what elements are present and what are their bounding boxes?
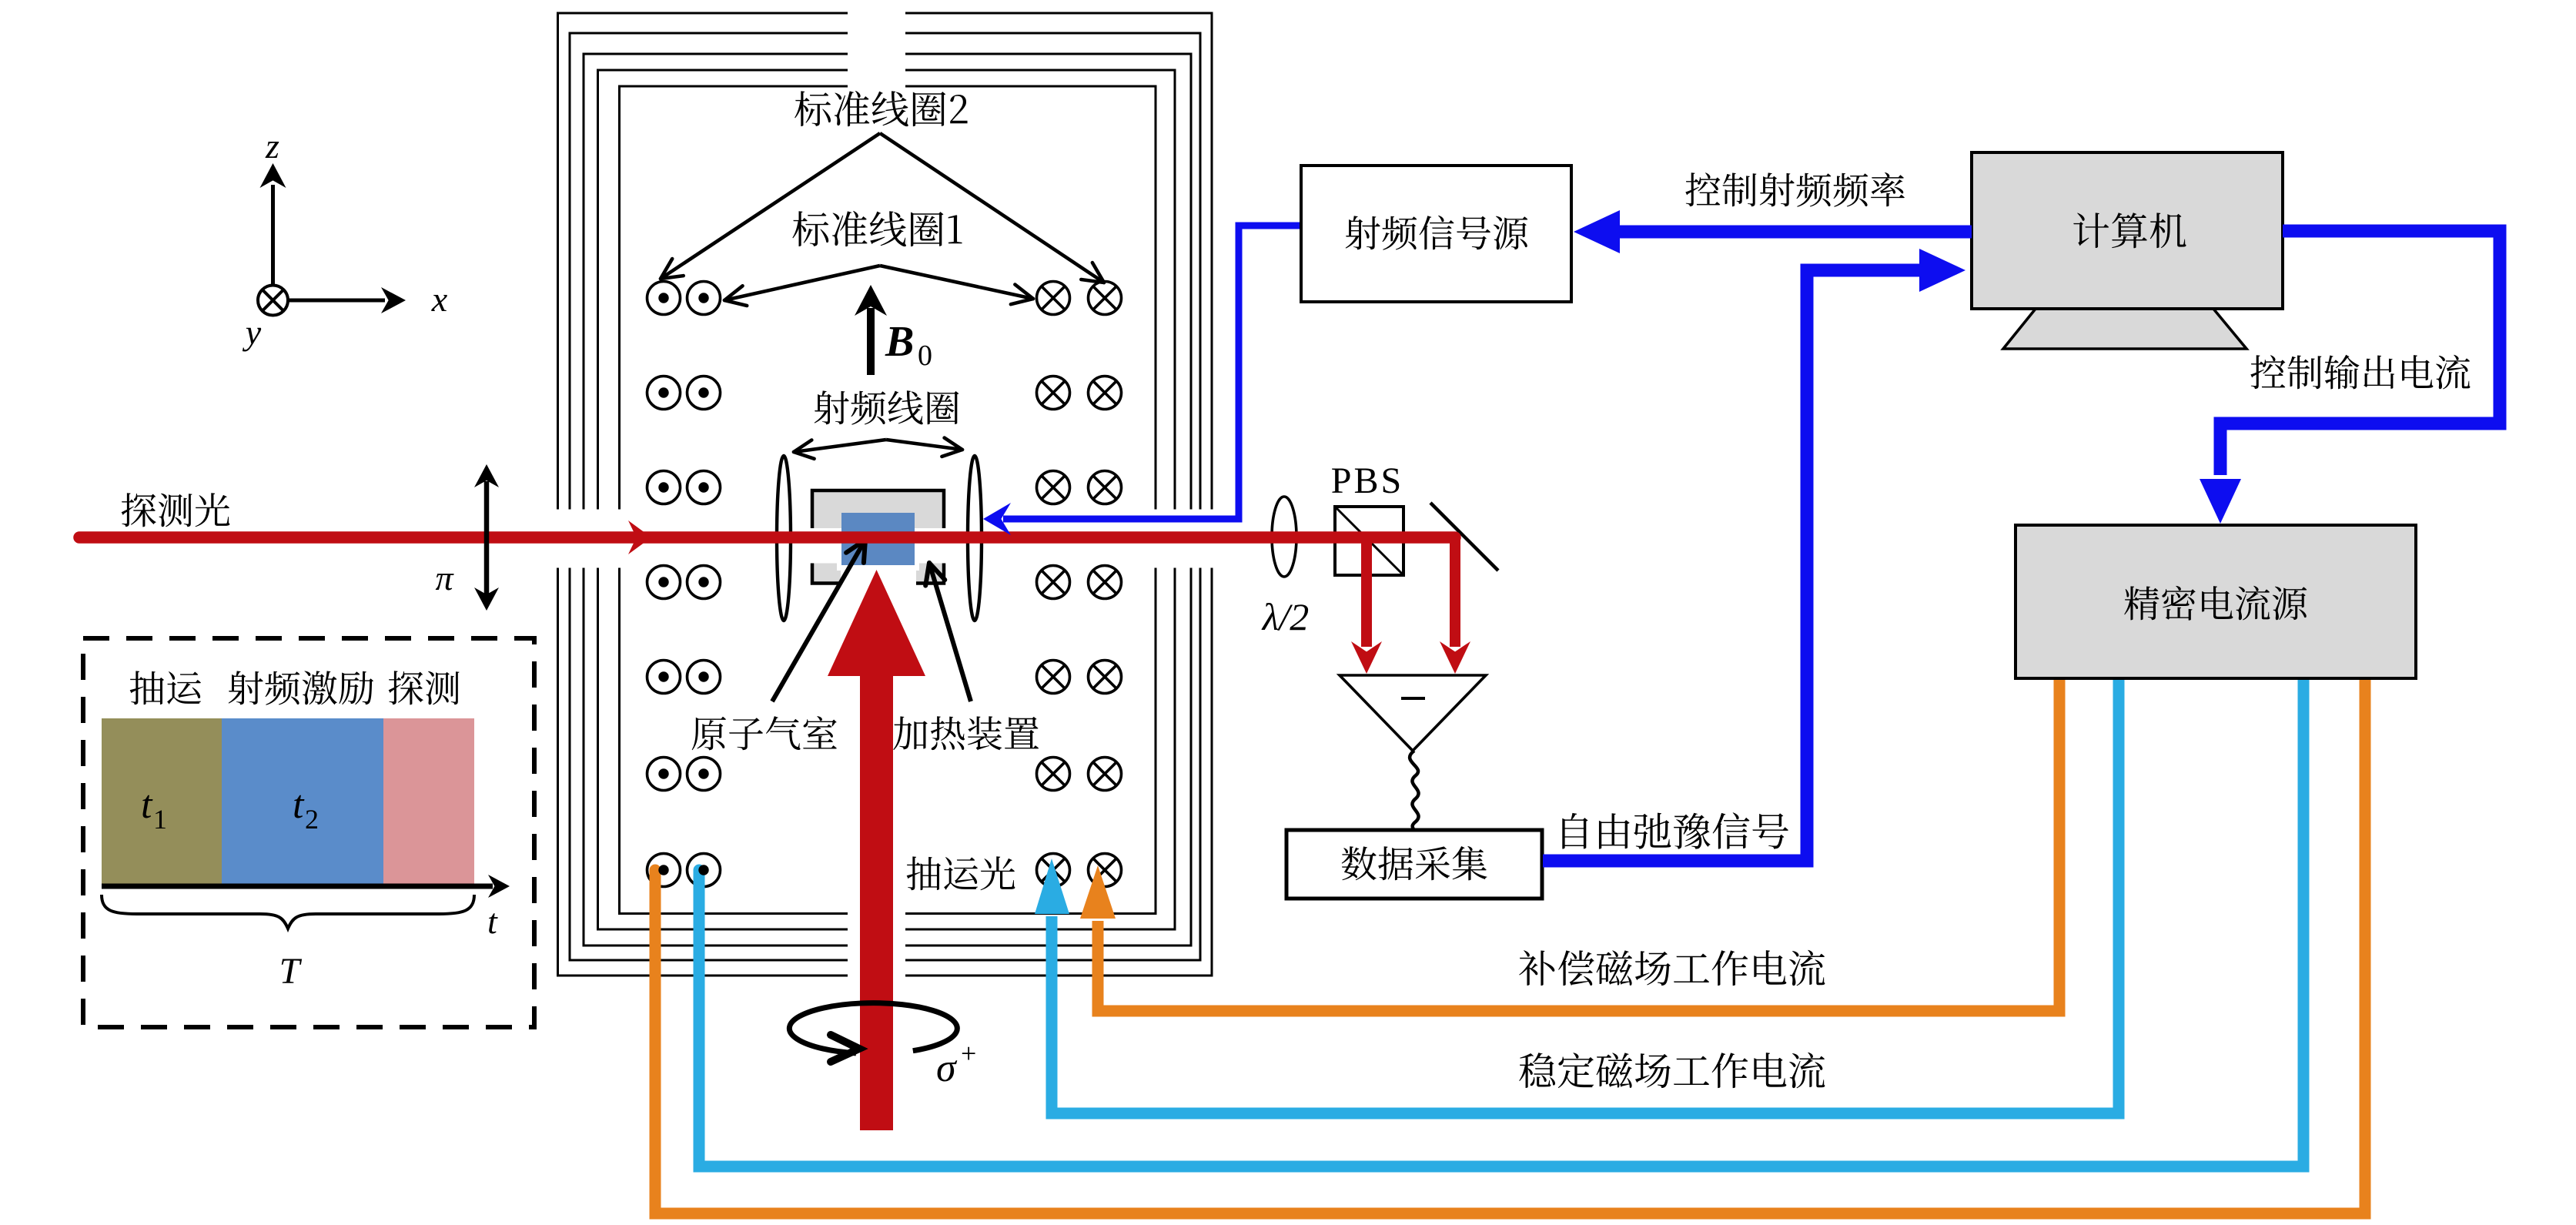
label: probe light (Chinese)	[122, 493, 230, 527]
timing label: pumping (Chinese)	[130, 671, 201, 705]
RF signal source box (Chinese: she pin xin hao yuan)	[1301, 166, 1571, 302]
probe beam direction arrowhead	[628, 520, 651, 554]
svg-text:x: x	[431, 279, 448, 319]
stabilization field working current wire (cyan) with arrowhead into shield	[1035, 674, 2119, 1113]
svg-text:1: 1	[153, 804, 167, 835]
PBS reflected beam (red vertical 1) with arrowhead	[1351, 537, 1382, 674]
label: free relaxation signal (Chinese)	[1562, 812, 1788, 848]
timing block detection (pink)	[383, 718, 474, 884]
timing diagram dashed frame	[83, 638, 534, 1027]
label: standard coil 2 (Chinese) with pointer arms	[661, 91, 1104, 283]
control RF frequency wire (blue arrow computer to RF source)	[1574, 210, 1972, 253]
timing label: detection (Chinese)	[389, 671, 460, 705]
mirror reflected beam (red vertical 2) with arrowhead	[1440, 537, 1470, 674]
RF coil left winding (ellipse)	[777, 456, 791, 621]
label: control output current (Chinese)	[2250, 355, 2470, 390]
label: heating device (Chinese) with pointer line	[893, 563, 1039, 750]
label: atom cell (Chinese) with pointer line	[692, 540, 865, 750]
coordinate axes (z up, x right, y into page)	[243, 126, 448, 352]
label: compensation field working current (Chinese)	[1519, 950, 1825, 986]
differential photodetector (inverted triangle with minus)	[1340, 675, 1486, 751]
heating device (grey box with beam channel and bottom notch)	[810, 490, 946, 585]
stabilization field return wire (cyan, to left coil column)	[699, 674, 2303, 1166]
label: standard coil 1 (Chinese) with pointer arms	[724, 211, 1033, 306]
label: control RF frequency (Chinese)	[1685, 172, 1905, 207]
precision current source box (Chinese: jing mi dian liu yuan)	[2016, 525, 2416, 678]
data acquisition box (Chinese: shu ju cai ji)	[1286, 830, 1542, 899]
svg-text:2: 2	[305, 804, 319, 835]
half-wave plate lens (ellipse)	[1272, 497, 1296, 577]
svg-text:T: T	[279, 951, 303, 992]
computer monitor screen box (Chinese: ji suan ji)	[1972, 152, 2283, 309]
svg-text:t: t	[487, 902, 498, 941]
pi polarization double arrow	[435, 464, 499, 611]
timing label: RF excitation (Chinese)	[229, 671, 373, 705]
RF signal wire from RF source to RF coil (blue, thin)	[983, 226, 1301, 535]
signal squiggle wire from detector to DAQ	[1410, 751, 1418, 832]
svg-text:0: 0	[918, 340, 932, 372]
svg-text:PBS: PBS	[1331, 460, 1403, 501]
svg-text:t: t	[141, 783, 153, 827]
label: RF coil (Chinese) with pointer arms	[794, 390, 962, 459]
svg-text:π: π	[435, 558, 454, 597]
compensation field working current wire (orange) with arrowhead into shield	[1080, 674, 2059, 1011]
label: pump light (Chinese)	[907, 856, 1015, 890]
timing block t2 RF excitation (blue)	[222, 718, 383, 884]
coil cross-section symbols: left column (current out of page, dot symbols)	[647, 282, 721, 887]
magnetic shield layer 1-5 (nested rectangles with beam gaps)	[558, 13, 1213, 976]
svg-text:y: y	[243, 313, 262, 352]
pump light beam (thick red vertical) with arrowhead	[828, 570, 925, 1130]
compensation field return wire (orange, to left coil column)	[655, 674, 2365, 1213]
label: stabilization field working current (Chinese)	[1519, 1053, 1825, 1089]
svg-text:+: +	[961, 1038, 976, 1069]
svg-text:z: z	[265, 126, 279, 166]
RF coil right winding (ellipse)	[968, 456, 982, 621]
PBS cube (square with diagonal)	[1335, 507, 1403, 575]
atom vapor cell (blue rectangle)	[841, 513, 915, 565]
t1 label	[141, 783, 167, 835]
period brace under axis	[102, 895, 474, 929]
time axis with arrow	[102, 875, 510, 898]
coil cross-section symbols: right column (current into page, cross symbols)	[1037, 282, 1122, 887]
svg-text:λ/2: λ/2	[1261, 595, 1310, 638]
probe light beam (red horizontal)	[79, 531, 1455, 544]
t2 label	[293, 783, 319, 835]
svg-text:B: B	[885, 318, 914, 366]
timing block t1 pumping (olive)	[102, 718, 222, 884]
B0 bias field arrow	[855, 285, 932, 375]
sigma+ circular polarization arrow (ellipse arc with chevron)	[789, 1003, 976, 1090]
free relaxation signal wire (blue from DAQ up to computer)	[1543, 249, 1965, 861]
mirror (diagonal line)	[1430, 503, 1498, 571]
control output current wire (blue from computer to current source)	[2200, 231, 2500, 524]
svg-text:σ: σ	[936, 1046, 958, 1090]
computer monitor stand (trapezoid)	[2003, 309, 2246, 349]
left bottom coil dots redrawn over wires	[658, 865, 708, 875]
svg-text:t: t	[293, 783, 305, 827]
